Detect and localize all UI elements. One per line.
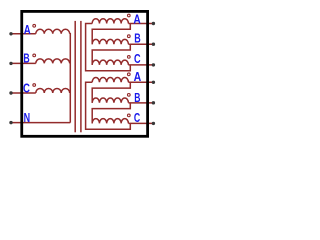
terminal dot secondary 2B	[152, 101, 155, 104]
delta link 1C end to 1A start	[86, 24, 131, 71]
polarity circle secondary 1C	[127, 56, 130, 59]
primary winding C	[36, 88, 70, 93]
svg-text:A: A	[24, 23, 31, 37]
svg-text:B: B	[134, 91, 140, 105]
secondary winding 1B	[92, 39, 128, 44]
delta link 1B end to 1C start	[92, 44, 130, 65]
secondary winding 2B	[92, 98, 128, 103]
wire secondary 2B	[128, 102, 153, 104]
svg-text:A: A	[134, 70, 142, 84]
delta link 2C end to 2A start	[86, 82, 131, 129]
polarity circle primary B	[33, 54, 36, 57]
svg-text:C: C	[134, 111, 140, 125]
secondary winding 1C	[92, 60, 128, 65]
secondary winding 1A	[92, 19, 128, 24]
delta link 2B end to 2C start	[92, 103, 130, 124]
wire secondary 2A	[128, 81, 153, 83]
enclosure box	[22, 11, 148, 136]
polarity circle primary C	[33, 84, 36, 87]
delta link 1A end to 1B start	[92, 24, 130, 45]
polarity circle secondary 2B	[127, 94, 130, 97]
polarity circle primary A	[33, 24, 36, 27]
wire secondary 1C	[128, 64, 153, 66]
wire N	[11, 122, 70, 124]
terminal dot secondary 2A	[152, 81, 155, 84]
wire primary B	[11, 62, 36, 64]
delta link 2A end to 2B start	[92, 82, 130, 103]
wire secondary 2C	[128, 122, 153, 124]
terminal dot primary A	[9, 32, 12, 35]
wire secondary 1A	[128, 23, 153, 25]
polarity circle secondary 2A	[127, 73, 130, 76]
wire primary A	[11, 33, 36, 35]
wire secondary 1B	[128, 43, 153, 45]
secondary winding 2A	[92, 77, 128, 82]
primary winding A	[36, 29, 70, 34]
svg-text:A: A	[133, 12, 140, 26]
terminal dot secondary 1C	[152, 63, 155, 66]
terminal dot secondary 1A	[152, 22, 155, 25]
polarity circle secondary 2C	[127, 114, 130, 117]
terminal dot secondary 1B	[152, 43, 155, 46]
core line right	[80, 21, 82, 132]
primary star bus	[69, 34, 72, 123]
svg-text:N: N	[24, 111, 31, 125]
svg-text:C: C	[134, 52, 141, 66]
svg-text:B: B	[23, 51, 29, 65]
polarity circle secondary 1B	[127, 35, 130, 38]
svg-text:C: C	[23, 82, 30, 96]
terminal dot primary B	[9, 62, 12, 65]
wire primary C	[11, 92, 36, 94]
core line left	[74, 21, 76, 132]
primary winding B	[36, 59, 70, 64]
terminal dot primary C	[9, 91, 12, 94]
terminal dot secondary 2C	[152, 122, 155, 125]
secondary winding 2C	[92, 119, 128, 124]
polarity circle secondary 1A	[127, 14, 130, 17]
svg-text:B: B	[134, 31, 141, 45]
terminal dot N	[9, 121, 12, 124]
